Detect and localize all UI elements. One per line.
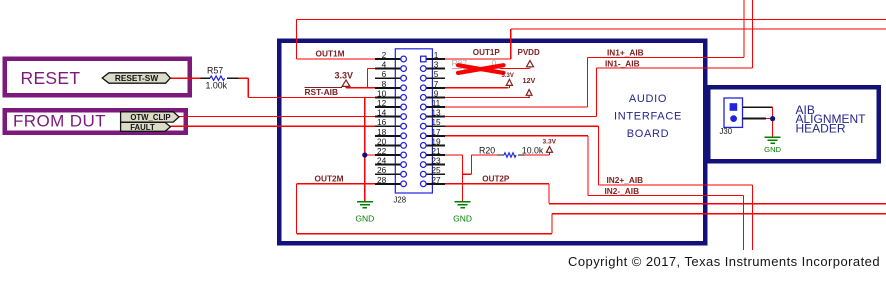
wire OUT1P riser [510,29,512,59]
resistor R20 body [504,153,516,157]
power symbol PVDD [527,61,534,67]
wire OUT1M top rail [297,19,886,21]
wire OUT2M rail to right [552,213,886,215]
RESET title box [5,59,190,96]
svg-text:RESET: RESET [21,68,81,88]
resistor R87 greyed leads [452,68,462,70]
J30 pin stub wires [743,106,773,108]
wire J30 to ground [766,118,773,120]
wire R20 to 3.3V [525,154,550,156]
svg-text:BOARD: BOARD [627,128,670,140]
connector J28 body [395,49,432,193]
wire IN1+ top stub [743,0,745,58]
wire R20 branch horizontal [463,173,472,175]
wire 12V pin9 [445,96,530,98]
svg-text:14: 14 [377,108,387,118]
svg-text:1.00k: 1.00k [206,81,228,91]
svg-text:26: 26 [377,165,387,175]
svg-text:INTERFACE: INTERFACE [614,111,682,123]
svg-text:25: 25 [431,165,441,175]
svg-text:10.0k: 10.0k [522,146,544,156]
resistor R20 leads [498,154,505,156]
wire OUT1P top rail [511,28,886,30]
wire OUT2M up jog [551,214,553,234]
svg-text:FROM DUT: FROM DUT [13,112,106,131]
svg-text:IN1-_AIB: IN1-_AIB [605,59,640,69]
wire IN1+ pin11 [445,106,588,108]
wire IN1- pin13 [445,116,597,118]
wire OUT2M bottom [297,233,552,235]
ground J30 [765,136,781,138]
svg-text:13: 13 [431,108,441,118]
wire IN1- top stub [752,0,754,68]
svg-text:4: 4 [382,60,387,70]
wire OUT2M pin28 [297,183,375,185]
wire OTW_CLIP to pin14 [179,116,376,118]
J30 pin2 circle [730,115,737,122]
svg-text:6: 6 [382,69,387,79]
main Audio Interface Board outline box [279,41,705,244]
wire RESET-SW to R57 [171,77,201,79]
wire IN1+ horizontal [588,57,744,59]
wire GND-left riser [364,97,366,201]
wire 3.3V-left row4 [367,68,375,70]
svg-text:3.3V: 3.3V [502,73,514,79]
ground left [357,201,373,203]
svg-text:R20: R20 [479,146,495,156]
J28 pins [401,56,407,62]
svg-text:27: 27 [431,175,441,185]
svg-text:IN2-_AIB: IN2-_AIB [605,186,640,196]
wire 3.3V-left row8 [346,87,375,89]
svg-text:17: 17 [431,127,441,137]
wire IN2- pin17 [445,135,588,137]
svg-text:3: 3 [434,60,439,70]
no-populate X over R87 [458,65,504,73]
wire IN2+ pin15 [445,125,599,127]
svg-text:3.3V: 3.3V [335,70,354,80]
wire IN2+ vertical [597,126,599,185]
svg-text:IN1+_AIB: IN1+_AIB [607,48,644,58]
svg-text:16: 16 [377,117,387,127]
port flag FAULT [121,122,171,131]
wire RST-AIB to pin10 [248,96,375,98]
ground right [455,201,471,203]
J30 pin1 square [730,103,738,111]
wire IN1- horizontal [597,67,753,69]
wire pin22 to riser [365,154,375,156]
wire R20 left feed [472,154,498,156]
svg-text:5: 5 [434,69,439,79]
svg-text:RESET-SW: RESET-SW [115,73,159,83]
svg-text:1: 1 [434,50,439,60]
wire OUT1M pin2 horizontal [297,58,375,60]
power symbol 3.3V R20 [547,147,553,153]
wire OUT1M riser [296,20,298,60]
wire FAULT to pin16 [170,125,375,127]
svg-text:HEADER: HEADER [796,122,846,136]
connector J30 body [724,98,743,127]
resistor R57 body [210,76,225,80]
power symbol 3.3V pin7 [506,79,512,85]
wire IN1+ vertical [587,58,589,108]
svg-text:12: 12 [377,98,387,108]
svg-text:OUT1P: OUT1P [473,48,501,57]
svg-text:OUT2M: OUT2M [315,174,344,184]
FROM DUT title box [5,110,186,133]
svg-text:21: 21 [431,146,441,156]
svg-text:12V: 12V [523,76,536,85]
svg-text:19: 19 [431,136,441,146]
power symbol 3.3V left [342,80,350,86]
svg-text:7: 7 [434,79,439,89]
AIB alignment header outline box [708,87,878,161]
svg-text:RST-AIB: RST-AIB [305,87,339,97]
svg-text:OUT1M: OUT1M [316,49,345,59]
wire OUT2M left riser [296,184,298,234]
svg-text:GND: GND [764,145,781,154]
svg-text:IN2+_AIB: IN2+_AIB [607,175,644,185]
svg-text:J28: J28 [394,196,407,205]
wire IN2- bottom stub [742,196,744,250]
wire pin21 to riser [445,154,463,156]
svg-text:23: 23 [431,156,441,166]
svg-text:OTW_CLIP: OTW_CLIP [130,113,170,122]
wire IN2- horizontal [588,195,743,197]
wire IN2+ bottom stub [751,185,753,250]
wire PVDD segment [500,68,530,70]
svg-text:OUT2P: OUT2P [482,175,510,184]
svg-text:2: 2 [382,50,387,60]
wire IN2+ horizontal [598,184,752,186]
junction dot J30 [770,116,775,121]
svg-text:10: 10 [377,88,387,98]
power symbol 12V [526,90,532,96]
wire 3.3V-left vertical [366,69,368,88]
resistor R87 greyed body [462,66,477,70]
svg-text:Copyright © 2017, Texas Instru: Copyright © 2017, Texas Instruments Inco… [568,254,880,269]
svg-text:AUDIO: AUDIO [629,93,667,105]
svg-text:9: 9 [434,88,439,98]
svg-text:GND: GND [453,213,472,223]
port flag OTW_CLIP [121,112,179,122]
J28 pin stub wires [375,58,401,60]
wire OUT2P down jog [548,184,550,204]
svg-text:FAULT: FAULT [130,123,155,132]
svg-text:20: 20 [377,136,387,146]
svg-text:J30: J30 [720,127,733,136]
wire IN2- vertical [587,136,589,196]
svg-text:24: 24 [377,156,387,166]
port flag RESET-SW [102,73,170,83]
svg-text:GND: GND [355,213,374,223]
wire GND-right riser [462,155,464,202]
svg-text:PVDD: PVDD [518,48,540,57]
svg-text:18: 18 [377,127,387,137]
resistor R57 leads [201,77,211,79]
wire 3.3V pin7 [445,87,509,89]
svg-text:22: 22 [377,146,387,156]
wire OUT2P rail to right [549,203,886,205]
wire OUT2P pin27 [445,183,549,185]
junction dot pin22 [362,152,367,157]
wire R57 corner down [247,78,249,97]
svg-text:3.3V: 3.3V [543,139,557,146]
svg-text:R57: R57 [207,66,223,76]
wire R57 to corner [239,77,249,79]
svg-text:11: 11 [432,98,441,108]
wire R20 branch vertical [471,155,473,174]
wire OUT1P pin1 horizontal [445,58,511,60]
svg-text:28: 28 [377,175,387,185]
wire IN1- vertical [596,68,598,117]
svg-text:8: 8 [382,79,387,89]
svg-text:15: 15 [431,117,441,127]
